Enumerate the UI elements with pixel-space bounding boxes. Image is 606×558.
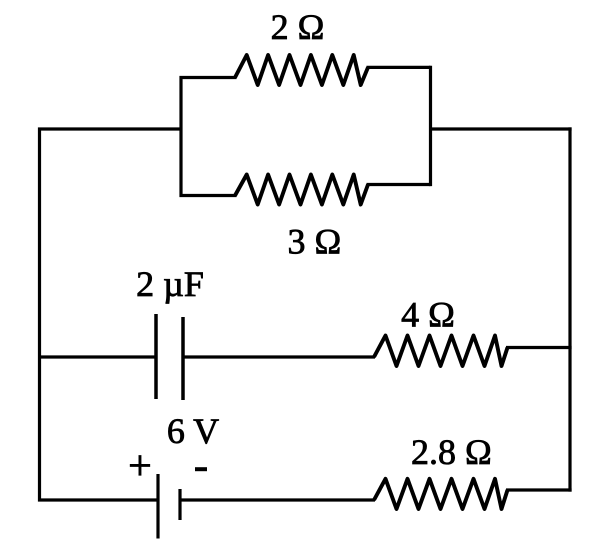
svg-text:+: + xyxy=(128,443,152,489)
wire: 2.8 ohm to right rail bottom corner xyxy=(506,488,572,491)
battery 6 V long plate (+) xyxy=(156,474,159,539)
wire: 2 ohm to box right corner xyxy=(367,66,431,69)
label battery minus xyxy=(195,467,207,471)
wire: parallel box right vertical xyxy=(429,66,432,186)
resistor 2 ohm zigzag xyxy=(235,55,368,85)
svg-text:2.8 Ω: 2.8 Ω xyxy=(411,432,492,472)
battery 6 V short plate (-) xyxy=(178,489,181,520)
svg-text:3 Ω: 3 Ω xyxy=(288,222,342,262)
wire: outer left rail (top horizontal, left vertical, bottom horizontal) xyxy=(40,129,183,500)
capacitor 2 uF left plate xyxy=(154,314,158,399)
wire: left rail to capacitor xyxy=(38,355,156,358)
wire: battery to 2.8 ohm xyxy=(180,498,375,501)
wire: capacitor to 4 ohm xyxy=(183,355,375,358)
svg-text:2 Ω: 2 Ω xyxy=(271,7,325,47)
resistor 4 ohm zigzag xyxy=(374,336,508,367)
resistor 2.8 ohm zigzag xyxy=(374,479,508,509)
capacitor 2 uF right plate xyxy=(181,317,185,400)
resistor 3 ohm zigzag xyxy=(235,175,368,205)
wire: right rail vertical xyxy=(568,127,571,491)
svg-text:4 Ω: 4 Ω xyxy=(401,295,455,335)
svg-text:6 V: 6 V xyxy=(167,411,219,451)
wire: box node to right rail xyxy=(431,127,572,130)
wire: 4 ohm to right rail xyxy=(506,346,572,349)
wire: parallel box left side xyxy=(181,78,237,196)
svg-text:2 µF: 2 µF xyxy=(136,264,204,304)
wire: 3 ohm to box right corner xyxy=(367,183,431,186)
